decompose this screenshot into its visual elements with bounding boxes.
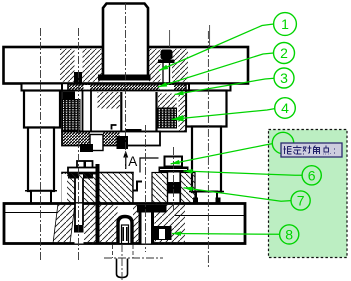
stripper plate: [62, 132, 160, 146]
seat channel wall right: [151, 213, 154, 244]
stop pin: [96, 164, 100, 244]
bolt channel through band: [84, 85, 91, 90]
centerline die cavity axis: [145, 125, 147, 252]
seat channel wall left: [139, 213, 142, 244]
tooltip glyph 角: [314, 146, 320, 155]
stripper hatch mid: [103, 132, 120, 146]
punch holder step block: [112, 125, 117, 130]
right foot pad right: [216, 198, 221, 204]
upper plate hatch right: [149, 49, 161, 82]
die left white column: [62, 174, 68, 203]
punch holder plate: [62, 91, 186, 132]
left guide pillar: [28, 128, 54, 192]
dome inner bar right: [126, 227, 128, 241]
tooltip glyph 点: [323, 146, 331, 155]
stripper notch: [90, 135, 103, 151]
left guide bushing body: [24, 91, 60, 128]
punch holder hatch right: [158, 94, 177, 109]
centerline right pillar axis: [207, 31, 209, 268]
lower bolt hat head: [77, 161, 93, 169]
die shoe hatch right: [172, 204, 185, 244]
callout circle 2: [274, 43, 295, 64]
svg-text:3: 3: [280, 70, 288, 86]
tooltip glyph 定: [293, 146, 302, 155]
shank flange bar: [98, 75, 151, 81]
bolt nut: [74, 225, 84, 233]
callout circle 8: [280, 225, 299, 244]
right pillar foot tick: [189, 191, 224, 193]
stripper hatch left: [62, 132, 90, 146]
centerline ejector axis: [121, 244, 123, 280]
tooltip glyph colon: [334, 149, 336, 154]
centerline ejector left stub: [112, 245, 114, 258]
backing plate band: [68, 84, 186, 91]
right guide bushing flange: [189, 84, 231, 91]
svg-text:4: 4: [281, 100, 289, 116]
seat channel: [142, 213, 152, 244]
cap screw washer: [158, 60, 175, 64]
centerline punch axis: [173, 147, 175, 212]
ejector rod: [117, 259, 128, 278]
svg-text:1: 1: [281, 16, 289, 32]
cap screw clearance: [161, 49, 173, 82]
tooltip box: [281, 143, 342, 157]
die shoe bolt channel: [75, 204, 84, 244]
counterbore seat block: [74, 72, 82, 84]
stripper bolt head: [80, 144, 93, 152]
punch holder hatch mid: [98, 92, 121, 109]
svg-text:8: 8: [285, 226, 293, 242]
leader 6: [184, 171, 303, 175]
lower bolt hat brim: [68, 168, 98, 174]
svg-text:7: 7: [297, 193, 305, 209]
punch retainer flange: [159, 167, 189, 173]
hat head tick: [84, 162, 87, 168]
dome inner slot: [122, 225, 129, 244]
right foot pad left: [193, 198, 198, 204]
bolt clearance channel: [75, 49, 83, 73]
punch retainer cap: [165, 157, 183, 167]
die pocket step bracket: [133, 182, 142, 191]
leader 4: [172, 109, 275, 120]
punch heel block: [168, 182, 181, 194]
selection panel: [269, 130, 348, 258]
callout circle 5: [272, 132, 293, 153]
callout circle 4: [275, 98, 296, 119]
tooltip glyph 指: [284, 146, 335, 155]
cap screw head: [161, 50, 173, 60]
dome inner bar left: [122, 227, 124, 241]
section arrow A: [125, 154, 127, 169]
centerline screw axis stub: [169, 30, 171, 47]
callout circle 6: [302, 166, 321, 185]
leader 2: [158, 53, 274, 87]
upper die plate: [4, 47, 249, 84]
lower die shoe: [4, 204, 245, 244]
stripper bolt channel: [82, 91, 84, 145]
stop block: [154, 226, 172, 240]
centerline right pillar stub: [209, 25, 211, 47]
centerline left pillar axis: [40, 28, 42, 261]
svg-text:2: 2: [280, 45, 288, 61]
tooltip glyph 对: [303, 146, 312, 155]
left pillar foot tick: [25, 190, 57, 192]
callout circle 1: [274, 13, 297, 36]
leader 8: [172, 233, 280, 236]
cavity right wall: [155, 92, 157, 133]
svg-text:6: 6: [308, 167, 316, 183]
centerline spring axis: [78, 28, 80, 262]
die insert hatch right: [181, 173, 196, 204]
punch holder hatch edge: [179, 93, 187, 132]
callout circle 7: [291, 191, 310, 210]
upper plate hatch left: [60, 49, 103, 82]
spring right coil: [158, 108, 177, 128]
svg-text:A: A: [128, 154, 137, 169]
cavity bottom bar: [126, 129, 142, 133]
centerline ejector horizontal datum: [104, 257, 163, 259]
die insert channel: [167, 173, 169, 204]
leader 5: [171, 144, 273, 164]
die shoe hatch sliver: [133, 204, 139, 244]
leader 3: [175, 78, 275, 94]
right guide pillar: [192, 127, 221, 193]
cap screw shank: [162, 63, 164, 91]
washer row left: [68, 174, 79, 179]
die pocket: [134, 173, 151, 203]
piercing punch tip: [117, 136, 129, 149]
centerline main shank axis: [125, 2, 127, 170]
die bolt channel: [75, 179, 84, 204]
die shoe hatch right-mid: [155, 204, 173, 244]
shank (die handle): [103, 4, 148, 77]
spring left coil: [63, 100, 81, 132]
left pillar foot: [31, 191, 51, 204]
callout circle 3: [274, 68, 294, 88]
die insert hatch left: [152, 173, 168, 204]
right pillar foot: [196, 192, 217, 204]
leader 1: [159, 24, 274, 71]
spring retainer block: [63, 92, 75, 101]
die shoe hatch mid: [84, 204, 118, 244]
punch left wall: [120, 92, 122, 140]
screw channel through band: [160, 85, 175, 90]
left guide bushing flange: [22, 84, 63, 91]
right guide bushing body: [186, 91, 227, 127]
die shoe step line right: [175, 215, 244, 217]
die shoe hatch parallelogram: [53, 204, 75, 244]
die step edge: [140, 158, 159, 173]
washer row right: [83, 174, 93, 179]
dome pocket: [118, 217, 132, 244]
centerline ejector right stub: [132, 245, 134, 258]
leader 7: [184, 188, 292, 202]
die shoe step line left: [4, 212, 58, 214]
die block left: [62, 173, 133, 204]
backing plate white left: [62, 84, 68, 91]
punch seat bar: [137, 205, 167, 213]
